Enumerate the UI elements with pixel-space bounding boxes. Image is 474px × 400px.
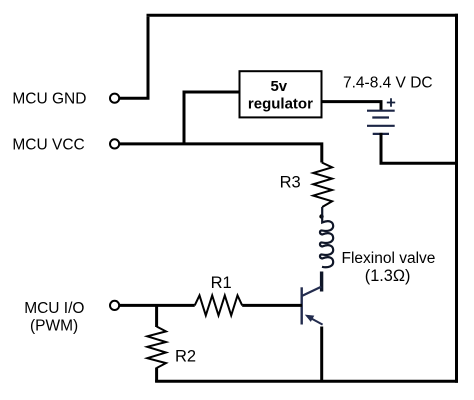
wire: bottom border — [155, 380, 458, 383]
terminal MCU VCC — [110, 139, 119, 148]
wire: MCU VCC rail to R3 — [119, 144, 322, 163]
resistor R3 — [313, 163, 332, 208]
wire: regulator output to battery positive — [322, 102, 382, 111]
svg-text:(PWM): (PWM) — [30, 317, 78, 334]
svg-text:R2: R2 — [175, 348, 196, 366]
transistor Q1 emitter arrowhead — [305, 315, 315, 322]
transistor Q1 emitter arrow shaft — [308, 317, 323, 325]
wire: R1 to base — [242, 304, 302, 307]
svg-text:Flexinol valve: Flexinol valve — [342, 250, 436, 267]
wire: battery negative to frame — [381, 133, 458, 163]
resistor R2 — [147, 327, 166, 369]
svg-text:MCU I/O: MCU I/O — [24, 300, 84, 317]
wire: junction to R2 — [155, 305, 158, 327]
wire: MCU GND to frame — [119, 17, 148, 99]
wire: VCC junction to regulator input — [184, 92, 240, 144]
node: R3 to coil junction — [319, 214, 323, 218]
battery BT1 plate 1 long — [367, 110, 395, 112]
svg-text:(1.3Ω): (1.3Ω) — [365, 267, 411, 285]
wire: right border — [455, 14, 458, 383]
resistor R1 — [195, 295, 243, 315]
wire: top border — [147, 14, 459, 17]
svg-text:MCU VCC: MCU VCC — [12, 137, 84, 154]
battery BT1 plus sign — [387, 98, 395, 106]
terminal MCU GND — [110, 94, 119, 103]
svg-text:MCU GND: MCU GND — [12, 91, 86, 108]
wire: emitter to bottom frame — [320, 327, 323, 383]
svg-text:7.4-8.4 V DC: 7.4-8.4 V DC — [343, 75, 433, 92]
svg-text:R3: R3 — [280, 173, 301, 191]
wire: R2 to bottom frame — [155, 368, 158, 383]
transistor Q1 collector diagonal — [302, 287, 321, 296]
regulator U1 box — [240, 71, 322, 117]
battery BT1 plate 3 long — [367, 125, 395, 127]
transistor Q1 base bar — [301, 287, 303, 324]
battery BT1 plate 2 short — [372, 116, 389, 118]
svg-text:R1: R1 — [211, 274, 232, 292]
inductor: Flexinol valve coil — [320, 207, 333, 267]
svg-text:5v: 5v — [270, 78, 287, 95]
wire: MCU I/O to R1 — [119, 304, 195, 307]
svg-text:regulator: regulator — [248, 95, 313, 112]
terminal MCU I/O — [110, 301, 119, 310]
transistor Q1 collector stub — [320, 272, 323, 292]
battery BT1 plate 4 short — [373, 133, 389, 135]
